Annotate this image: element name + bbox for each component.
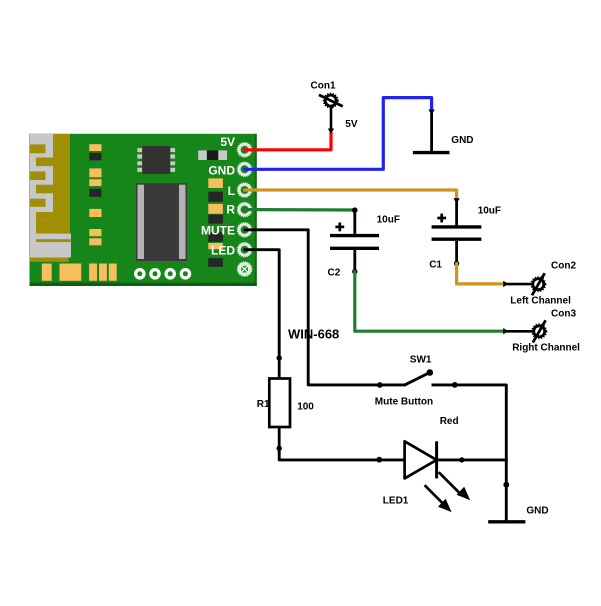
svg-text:R: R [226, 203, 235, 217]
IC U1 main chip [136, 183, 187, 261]
pad X mounting [238, 262, 252, 276]
svg-text:SW1: SW1 [410, 354, 432, 365]
capacitor C2 [330, 210, 379, 274]
wire orange L to C1 [245, 190, 457, 199]
antenna meander [30, 134, 71, 262]
junction dot C2 top [352, 207, 358, 213]
svg-text:5V: 5V [220, 135, 235, 149]
wire green R to C2 [245, 208, 355, 212]
pin of Con3 [507, 330, 533, 333]
svg-text:Right Channel: Right Channel [512, 343, 580, 354]
connector Con3 [532, 320, 546, 342]
junction dot LED anode [376, 457, 382, 463]
pad MUTE [201, 223, 252, 238]
svg-text:LED: LED [211, 244, 235, 258]
svg-text:5V: 5V [345, 119, 358, 130]
IC U2 SOIC-8 [137, 146, 175, 174]
SMD resistor near 5V [198, 150, 227, 160]
junction dot cathode [459, 457, 464, 462]
mounting holes [134, 268, 191, 280]
pin of Con1 [330, 107, 333, 130]
pin of Con2 [507, 283, 532, 286]
connector Con1 [319, 94, 343, 108]
svg-text:10uF: 10uF [478, 205, 501, 216]
SMD component column left [89, 144, 101, 245]
wire black R1 to LED1 [279, 448, 404, 460]
wire black LED cathode to GND [437, 458, 507, 461]
svg-text:GND: GND [451, 135, 473, 146]
arrow wire-to-pin Con1 [328, 129, 334, 134]
junction dot R1 top [277, 355, 282, 360]
svg-text:L: L [228, 184, 235, 198]
svg-text:100: 100 [297, 402, 314, 413]
wire black right vertical [505, 385, 508, 521]
ground GND bottom [488, 520, 525, 523]
svg-text:R1: R1 [257, 399, 270, 410]
svg-text:LED1: LED1 [383, 495, 409, 506]
module WIN-668 board [30, 134, 257, 286]
arrow wire-to-pin GND [428, 110, 434, 115]
wire black MUTE to SW1 [245, 230, 405, 385]
resistor R1 [269, 358, 290, 451]
wire green C2 to Con3 [355, 272, 504, 332]
SMD component column right [208, 178, 223, 266]
svg-text:10uF: 10uF [377, 214, 400, 225]
connector Con2 [531, 273, 545, 295]
junction dot right vertical [503, 482, 509, 488]
pad R [226, 203, 251, 217]
svg-text:Con2: Con2 [551, 260, 576, 271]
svg-text:Red: Red [440, 416, 459, 427]
svg-text:C1: C1 [429, 259, 442, 270]
svg-text:Con1: Con1 [311, 81, 336, 92]
arrow wire-to-pin Con2 [503, 281, 508, 287]
svg-text:Mute Button: Mute Button [375, 397, 433, 408]
arrow wire-to-pin C1 [453, 198, 459, 203]
capacitor C1 [432, 202, 482, 267]
arrow wire-to-pin Con3 [503, 328, 508, 334]
svg-text:GND: GND [208, 164, 235, 178]
wire blue GND [245, 98, 432, 170]
pad 5V [220, 135, 251, 157]
pad GND [208, 162, 251, 177]
svg-text:Left Channel: Left Channel [510, 296, 571, 307]
bottom copper pads [42, 264, 117, 281]
svg-text:C2: C2 [328, 268, 341, 279]
wire red 5V to Con1 [245, 133, 331, 150]
pad L [228, 183, 252, 198]
svg-text:MUTE: MUTE [201, 224, 235, 238]
ground GND top [413, 113, 450, 153]
svg-text:GND: GND [526, 506, 548, 517]
switch SW1 [377, 369, 506, 388]
pad LED [211, 243, 252, 258]
svg-text:WIN-668: WIN-668 [288, 327, 339, 342]
LED LED1 [405, 441, 471, 512]
wire orange C1 to Con2 [457, 264, 504, 284]
svg-text:Con3: Con3 [551, 308, 576, 319]
wire black LED pad to R1 [245, 250, 280, 358]
